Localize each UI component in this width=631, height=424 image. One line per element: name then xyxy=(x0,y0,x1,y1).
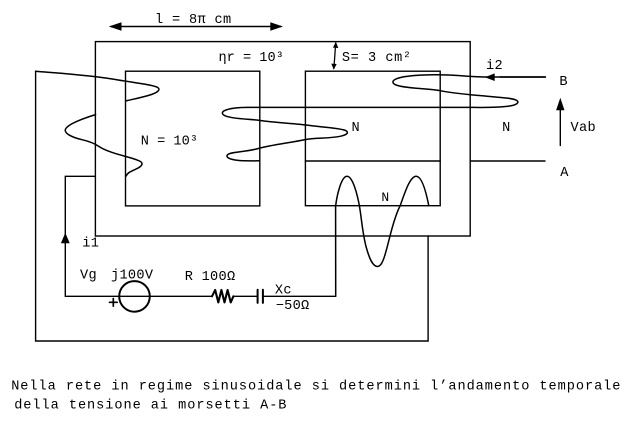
wire resistor to capacitor xyxy=(233,295,257,297)
svg-text:j100V: j100V xyxy=(111,268,154,283)
svg-text:A: A xyxy=(560,166,569,181)
arrowhead i1 xyxy=(61,233,70,243)
wire source row left xyxy=(65,295,212,297)
wire B xyxy=(500,76,545,78)
winding N1 (left leg) upper stroke xyxy=(36,71,159,101)
svg-text:N: N xyxy=(381,190,389,205)
wire A xyxy=(470,160,545,162)
core right window divider line xyxy=(305,160,440,162)
resistor R xyxy=(212,290,233,302)
svg-text:i1: i1 xyxy=(82,237,99,252)
arrow Vab xyxy=(556,98,564,146)
winding N3 (right leg) with long wire xyxy=(250,75,545,108)
svg-text:R 100Ω: R 100Ω xyxy=(185,270,236,285)
winding N4 (bottom leg of right window) xyxy=(336,176,429,296)
winding N4 hidden-return vertical xyxy=(427,236,429,341)
svg-text:della tensione ai morsetti A-B: della tensione ai morsetti A-B xyxy=(14,399,287,414)
core outer outline xyxy=(95,42,470,236)
svg-text:N: N xyxy=(352,121,360,136)
svg-text:S= 3 cm²: S= 3 cm² xyxy=(342,51,412,66)
svg-text:Xc: Xc xyxy=(275,284,292,299)
svg-text:N: N xyxy=(502,121,510,136)
plus sign of source xyxy=(110,299,118,307)
svg-text:Nella rete in regime sinusoida: Nella rete in regime sinusoidale si dete… xyxy=(11,380,621,395)
core left window xyxy=(126,71,260,206)
capacitor Xc plates xyxy=(258,290,263,303)
wire capacitor to bottom winding xyxy=(263,295,336,297)
svg-text:N = 10³: N = 10³ xyxy=(141,135,198,150)
svg-text:ηr = 10³: ηr = 10³ xyxy=(219,51,284,66)
svg-text:−50Ω: −50Ω xyxy=(276,299,310,314)
core right window xyxy=(305,71,440,206)
svg-text:i2: i2 xyxy=(486,59,503,74)
arrowhead i2 xyxy=(485,73,495,81)
left return wire (left vertical, bottom horizontal, right vertical) xyxy=(36,71,429,341)
svg-text:B: B xyxy=(559,75,567,90)
wire i1 vertical + horizontal xyxy=(65,176,95,296)
dimension arrow l xyxy=(109,22,283,30)
source Vg circle xyxy=(119,281,150,312)
winding N2 (center leg) xyxy=(222,107,347,160)
dimension arrow S xyxy=(331,42,338,70)
svg-text:l = 8π cm: l = 8π cm xyxy=(155,13,232,28)
svg-text:Vg: Vg xyxy=(80,268,97,283)
svg-text:Vab: Vab xyxy=(571,121,597,136)
winding N1 (left leg) lower stroke xyxy=(65,115,142,176)
